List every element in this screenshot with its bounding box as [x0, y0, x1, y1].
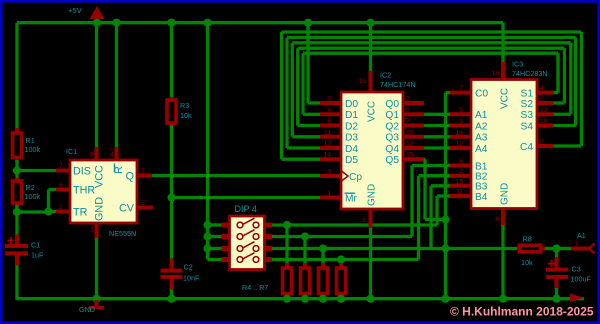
pin number 2: [406, 96, 410, 103]
IC3 pin A1: [449, 110, 488, 121]
svg-text:Q4: Q4: [385, 144, 399, 155]
svg-text:100k: 100k: [25, 192, 41, 201]
label R4 .. R7: [242, 283, 268, 292]
svg-text:11: 11: [456, 189, 463, 196]
capacitor C3: [546, 257, 568, 300]
svg-text:3: 3: [459, 118, 463, 125]
wire bus riser to D5: [282, 32, 321, 159]
junction C3 gnd rail: [552, 295, 560, 303]
svg-text:A2: A2: [475, 121, 488, 132]
resistor R8: [517, 245, 557, 252]
svg-text:6: 6: [459, 158, 463, 165]
junction R5 gnd: [301, 295, 309, 303]
label A1 output: [575, 231, 586, 248]
IC2 pin MR: [320, 193, 357, 204]
svg-text:4: 4: [327, 107, 331, 114]
svg-text:© H.Kuhlmann 2018-2025: © H.Kuhlmann 2018-2025: [450, 305, 594, 319]
svg-text:Q3: Q3: [385, 133, 399, 144]
wire B3 riser: [431, 186, 450, 249]
junction C0 gnd rail: [441, 295, 449, 303]
wire bus riser to D4: [287, 37, 320, 148]
svg-text:R4 .. R7: R4 .. R7: [242, 283, 268, 292]
svg-text:C0: C0: [475, 88, 488, 99]
svg-text:7: 7: [459, 85, 463, 92]
IC2 pin Q5: [385, 155, 424, 166]
pin number 10: [406, 129, 414, 136]
pin number 13: [540, 107, 548, 114]
label R3: [180, 101, 192, 120]
wire B4 riser: [437, 196, 450, 225]
wire +5V top rail: [17, 23, 503, 62]
pin number 8: [495, 216, 499, 223]
IC2 74HC174 body: [341, 92, 403, 209]
svg-text:D3: D3: [345, 133, 358, 144]
wire Q5 link: [424, 159, 446, 219]
svg-text:2: 2: [59, 204, 63, 211]
wire Q4 to A4: [424, 146, 450, 149]
IC1 pin GND: [94, 197, 106, 300]
wire DIS: [17, 169, 56, 172]
resistor R6: [319, 263, 328, 300]
svg-text:GND: GND: [500, 183, 511, 205]
svg-text:13: 13: [323, 141, 331, 148]
wire switch row1: [272, 223, 437, 226]
wire B2 riser: [419, 176, 451, 260]
pin number 2: [59, 204, 63, 211]
junction row1 R4: [283, 221, 291, 229]
svg-text:11: 11: [324, 129, 331, 136]
wire rail to DIP switch: [206, 23, 209, 260]
junction DIP pin1: [203, 221, 211, 229]
svg-text:15: 15: [455, 178, 463, 185]
label 74HC283N: [512, 69, 548, 78]
pin number 6: [327, 118, 331, 125]
IC1 pin THR: [56, 185, 95, 197]
pin number 3: [327, 96, 331, 103]
svg-text:12: 12: [455, 141, 463, 148]
resistor R2: [13, 178, 22, 207]
wire switch row3 to R8: [272, 247, 517, 250]
wire Q3 to A3: [424, 135, 450, 138]
svg-text:2: 2: [406, 96, 410, 103]
svg-text:IC3: IC3: [512, 60, 523, 69]
svg-text:C3: C3: [572, 264, 581, 273]
junction R4 gnd: [283, 295, 291, 303]
IC1 pin R reset: [113, 24, 125, 174]
pin number 7: [459, 85, 463, 92]
IC2 pin D2: [320, 121, 358, 132]
wire Q1 to A1: [424, 113, 450, 116]
wire DIP left stubs: [208, 225, 223, 260]
pin number 13: [323, 141, 331, 148]
junction row3 C0 crossing: [441, 244, 449, 252]
svg-text:10: 10: [406, 129, 414, 136]
junction THR/TR corner: [44, 207, 52, 215]
wire R7 top: [339, 260, 342, 265]
switch pins: [222, 223, 273, 263]
svg-text:10: 10: [540, 118, 548, 125]
svg-text:S4: S4: [521, 121, 534, 132]
pin number 8: [362, 217, 366, 224]
junction DIP pin2: [203, 232, 211, 240]
junction row4 R7: [337, 255, 345, 263]
wire R6 top: [321, 249, 324, 265]
junction DIP pin3: [203, 244, 211, 252]
junction DIS node: [13, 166, 21, 174]
pin number 3: [141, 168, 145, 175]
wire bus riser to D3: [292, 43, 320, 137]
IC2 pin Q1: [385, 110, 424, 121]
svg-text:10k: 10k: [180, 111, 192, 120]
label 74HC174N: [380, 80, 416, 89]
label NE555N: [109, 229, 136, 238]
connector output pin: [589, 244, 595, 254]
power +5V symbol: [90, 6, 105, 23]
svg-text:+5V: +5V: [68, 6, 83, 15]
svg-text:14: 14: [323, 152, 331, 159]
junction rail R-pin riser: [112, 19, 120, 27]
IC3 pin B1: [449, 161, 488, 172]
svg-text:NE555N: NE555N: [109, 229, 136, 238]
svg-text:8: 8: [90, 152, 94, 159]
svg-text:S1: S1: [521, 88, 534, 99]
svg-text:12: 12: [406, 141, 414, 148]
svg-text:A1: A1: [577, 231, 586, 240]
wire output stub: [557, 247, 590, 250]
svg-text:VCC: VCC: [367, 101, 378, 122]
svg-text:Cp: Cp: [349, 172, 362, 183]
svg-text:3: 3: [327, 96, 331, 103]
wire R1-R2 node: [15, 160, 18, 180]
IC2 pin D3: [320, 133, 358, 144]
IC3 pin S2: [521, 99, 554, 110]
IC3 pin C0: [449, 88, 488, 99]
wire B1 riser: [412, 166, 450, 237]
ground symbol GND: [89, 300, 104, 309]
wire bus line 5: [303, 52, 558, 55]
svg-text:3: 3: [141, 168, 145, 175]
IC2 pin Cp: [320, 171, 362, 183]
IC2 pin D0: [320, 99, 358, 110]
capacitor C1 polarity: [7, 237, 14, 244]
label GND: [79, 305, 95, 314]
IC3 pin A4: [449, 144, 488, 155]
IC2 pin Q4: [385, 144, 424, 155]
wire R5 top: [303, 237, 306, 265]
ground rail end symbol: [570, 294, 584, 303]
IC3 pin B4: [449, 192, 488, 203]
junction rail/arrow: [93, 19, 101, 27]
svg-text:IC2: IC2: [380, 71, 391, 80]
svg-text:1: 1: [540, 96, 544, 103]
svg-text:C4: C4: [520, 142, 533, 153]
pin number 9: [540, 139, 544, 146]
svg-text:15: 15: [406, 152, 414, 159]
label copyright: [450, 305, 594, 319]
IC3 pin C4: [520, 142, 554, 153]
svg-text:Q1: Q1: [385, 110, 399, 121]
IC2 pin D5: [320, 155, 358, 166]
svg-text:S2: S2: [521, 99, 534, 110]
wire R3 to C2: [170, 125, 173, 260]
svg-text:R1: R1: [26, 136, 35, 145]
svg-text:10nF: 10nF: [183, 273, 200, 282]
IC3 pin B2: [449, 172, 488, 183]
svg-text:4: 4: [540, 85, 544, 92]
IC1 pin CV: [119, 203, 153, 215]
wire bus line 1: [282, 30, 582, 33]
label R8: [521, 235, 533, 267]
junction C2 gnd rail: [167, 295, 175, 303]
IC1 555 timer body: [70, 160, 137, 223]
IC3 pin GND: [500, 183, 511, 300]
svg-text:Q: Q: [126, 171, 134, 183]
pin number 16: [358, 78, 366, 85]
wire bus riser from S4: [554, 37, 576, 125]
junction rail IC2 VCC: [366, 19, 374, 27]
capacitor C1: [5, 235, 28, 301]
label DIP 4: [235, 204, 257, 214]
wire bus line 3: [292, 41, 571, 44]
label C1: [31, 241, 44, 260]
wire GND bottom rail: [17, 297, 584, 300]
svg-text:16: 16: [491, 70, 499, 77]
pin number 11: [456, 189, 463, 196]
wire bus riser from S2: [554, 48, 565, 103]
svg-text:1uF: 1uF: [31, 251, 44, 260]
junction rail DIP branch: [203, 19, 211, 27]
capacitor C3 polarity: [548, 260, 555, 267]
IC2 pin D4: [320, 144, 358, 155]
IC2 pin Q2: [385, 121, 424, 132]
pin number 1: [327, 190, 331, 197]
pin number 15: [455, 178, 463, 185]
svg-text:R8: R8: [523, 235, 532, 244]
capacitor C2: [161, 259, 183, 301]
svg-text:R2: R2: [26, 183, 35, 192]
wire R1 top (rail to R1): [15, 23, 18, 130]
wire bus riser from S1: [554, 53, 559, 92]
junction IC3 gnd rail: [499, 295, 507, 303]
pin number 7: [406, 118, 410, 125]
svg-text:5: 5: [459, 107, 463, 114]
svg-text:GND: GND: [367, 184, 378, 206]
svg-text:C1: C1: [31, 241, 40, 250]
pin number 11: [324, 129, 331, 136]
pin number 5: [141, 200, 145, 207]
pin number 14: [323, 152, 331, 159]
svg-text:VCC: VCC: [500, 88, 511, 109]
junction R6 gnd: [319, 295, 327, 303]
pin number 1: [90, 227, 94, 234]
wire TR/THR link: [17, 190, 56, 213]
wire bus riser to D1: [303, 53, 320, 114]
svg-text:DIP 4: DIP 4: [235, 204, 257, 214]
pin number 6: [59, 182, 63, 189]
wire MR line: [172, 196, 321, 199]
IC1 pin DIS: [56, 166, 91, 178]
svg-text:100k: 100k: [25, 145, 41, 154]
svg-text:D5: D5: [345, 155, 358, 166]
resistor R7: [337, 263, 346, 300]
pin number 5: [459, 107, 463, 114]
IC3 pin S3: [521, 110, 554, 121]
pin number 14: [455, 129, 463, 136]
svg-text:Mr: Mr: [345, 193, 357, 204]
svg-text:16: 16: [358, 78, 366, 85]
pin number 9: [327, 169, 331, 176]
wire bus riser from C4: [554, 32, 582, 146]
junction output node: [552, 244, 560, 252]
IC2 pin VCC: [367, 23, 378, 122]
svg-text:5: 5: [141, 200, 145, 207]
svg-text:74HC283N: 74HC283N: [512, 69, 548, 78]
label C2: [183, 262, 200, 282]
wire rail to R3: [170, 23, 173, 99]
svg-text:1: 1: [327, 190, 331, 197]
pin number 16: [491, 70, 499, 77]
svg-text:A4: A4: [475, 144, 488, 155]
wire Q2 to A2: [424, 124, 450, 127]
pin number 12: [455, 141, 463, 148]
junction R7 gnd: [337, 295, 345, 303]
svg-text:100uF: 100uF: [571, 275, 592, 284]
svg-text:9: 9: [540, 139, 544, 146]
pin number 2: [459, 168, 463, 175]
svg-text:DIS: DIS: [73, 166, 91, 178]
svg-text:Q5: Q5: [385, 155, 399, 166]
junction row3 R6: [319, 244, 327, 252]
wire Q to Cp: [152, 174, 320, 177]
wire bus riser from S3: [554, 43, 571, 114]
switch S1 DIP-4 body: [230, 216, 265, 270]
wire switch row4: [272, 258, 419, 261]
wire C0 vertical: [446, 93, 451, 300]
IC2 pin Q3: [385, 133, 424, 144]
svg-text:Q0: Q0: [385, 99, 399, 110]
IC3 pin B3: [449, 182, 488, 193]
pin number 4: [540, 85, 544, 92]
svg-text:9: 9: [327, 169, 331, 176]
pin number 6: [459, 158, 463, 165]
pin number 8: [90, 152, 94, 159]
svg-text:Q2: Q2: [385, 121, 399, 132]
svg-text:IC1: IC1: [66, 147, 77, 156]
junction IC2 gnd rail: [366, 295, 374, 303]
svg-text:GND: GND: [79, 305, 95, 314]
junction row2 R5: [301, 232, 309, 240]
IC3 pin A2: [449, 121, 488, 132]
junction rail D0 branch: [304, 19, 312, 27]
svg-text:D1: D1: [345, 110, 358, 121]
label IC2: [380, 71, 391, 80]
wire switch row2: [272, 235, 412, 238]
pin number 15: [406, 152, 414, 159]
junction 555 gnd rail: [92, 295, 100, 303]
svg-text:13: 13: [540, 107, 548, 114]
svg-text:74HC174N: 74HC174N: [380, 80, 416, 89]
svg-text:TR: TR: [73, 207, 88, 219]
IC3 pin VCC: [500, 62, 511, 109]
label R2: [25, 183, 41, 201]
svg-text:10k: 10k: [521, 258, 533, 267]
svg-text:B4: B4: [475, 192, 488, 203]
IC1 pin TR: [56, 207, 88, 219]
IC1 pin VCC: [94, 24, 106, 188]
IC1 pin Q: [126, 171, 152, 183]
svg-text:D4: D4: [345, 144, 358, 155]
svg-text:D0: D0: [345, 99, 358, 110]
svg-text:1: 1: [90, 227, 94, 234]
svg-text:14: 14: [455, 129, 463, 136]
wire R2 to C1: [15, 205, 18, 236]
svg-text:D2: D2: [345, 121, 358, 132]
IC3 74HC283 body: [471, 80, 537, 209]
pin number 12: [406, 141, 414, 148]
pin number 1: [540, 96, 544, 103]
pin number 3: [459, 118, 463, 125]
pin number 5: [406, 107, 410, 114]
svg-text:2: 2: [459, 168, 463, 175]
resistor R3: [167, 97, 176, 127]
svg-text:8: 8: [362, 217, 366, 224]
resistor R5: [301, 263, 310, 300]
IC2 pin D1: [320, 110, 358, 121]
pin number 4: [327, 107, 331, 114]
IC3 pin A3: [449, 133, 488, 144]
resistor R4: [283, 263, 292, 300]
wire rail to D0: [308, 23, 320, 103]
label IC1: [66, 147, 77, 156]
junction Q5/C0 node: [441, 215, 449, 223]
junction MR node: [167, 193, 175, 201]
svg-text:A1: A1: [475, 110, 488, 121]
label IC3: [512, 60, 523, 69]
svg-text:A3: A3: [475, 133, 488, 144]
svg-text:VCC: VCC: [94, 165, 106, 188]
IC3 pin S1: [521, 88, 554, 99]
svg-text:6: 6: [59, 182, 63, 189]
IC3 pin S4: [521, 121, 554, 132]
wire bus line 2: [287, 36, 576, 39]
switch levers: [237, 218, 259, 262]
wire bus line 4: [298, 47, 565, 50]
svg-text:5: 5: [406, 107, 410, 114]
svg-text:S3: S3: [521, 110, 534, 121]
IC2 pin GND: [367, 184, 378, 300]
wire to C3: [555, 249, 558, 259]
label R1: [25, 136, 41, 154]
svg-text:7: 7: [59, 163, 63, 170]
svg-text:CV: CV: [119, 203, 135, 215]
resistor R1: [13, 128, 22, 162]
svg-text:8: 8: [495, 216, 499, 223]
pin number 7: [59, 163, 63, 170]
svg-text:6: 6: [327, 118, 331, 125]
junction rail R3 branch: [167, 19, 175, 27]
IC2 pin Q0: [385, 99, 424, 110]
wire bus riser to D2: [298, 48, 320, 125]
junction TR node: [13, 208, 21, 216]
svg-text:R3: R3: [180, 101, 189, 110]
label +5V: [68, 6, 83, 15]
svg-text:4: 4: [110, 152, 114, 159]
pin number 4: [110, 152, 114, 159]
svg-text:GND: GND: [94, 197, 106, 221]
svg-text:THR: THR: [73, 185, 95, 197]
pin number 10: [540, 118, 548, 125]
label C3: [571, 264, 592, 283]
